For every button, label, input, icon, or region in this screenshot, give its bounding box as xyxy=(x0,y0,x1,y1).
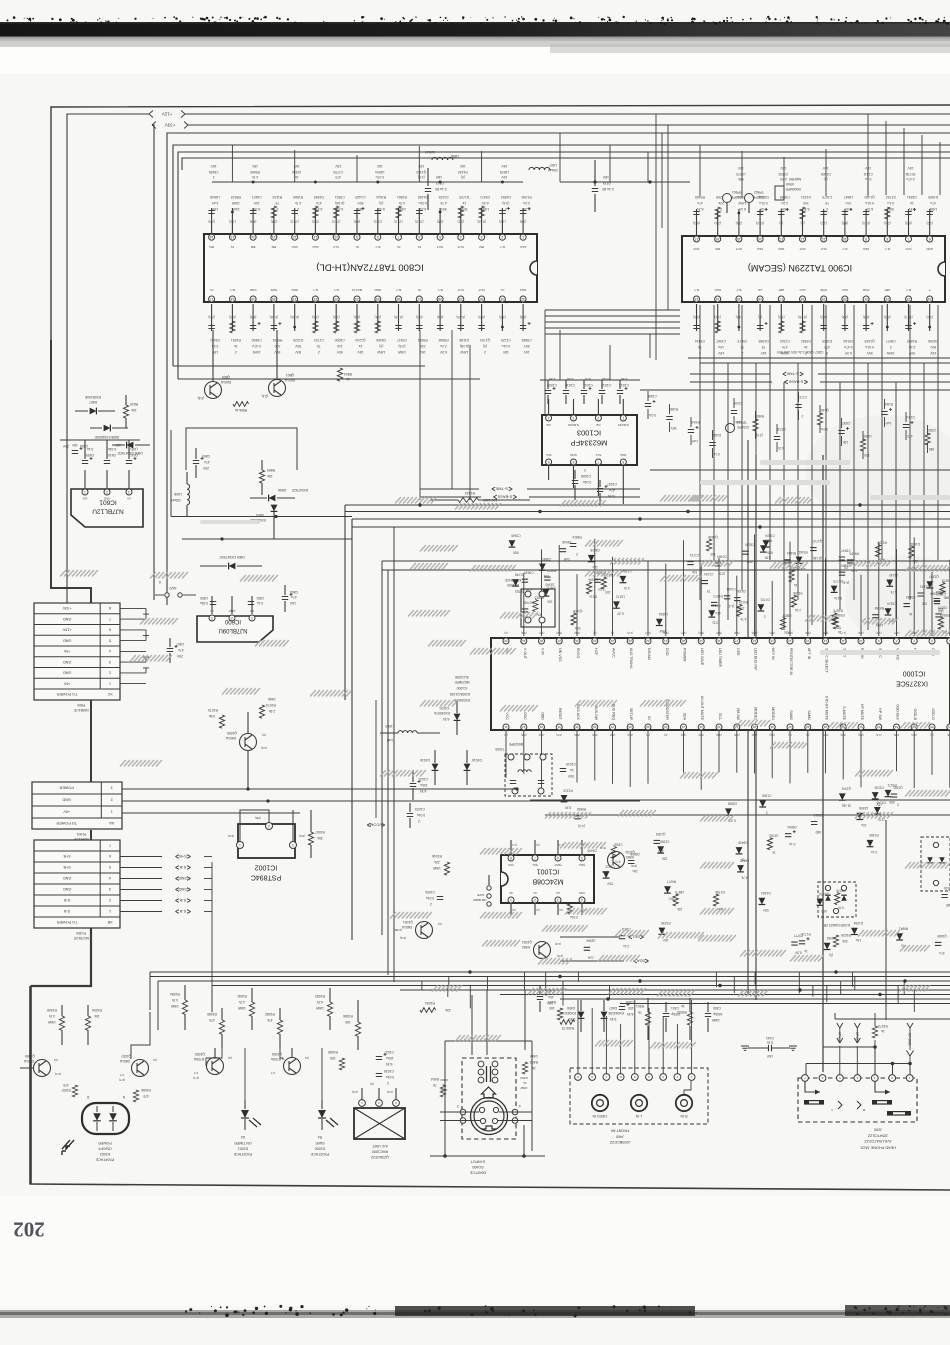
svg-text:(0): (0) xyxy=(370,1082,374,1086)
svg-text:8: 8 xyxy=(622,460,624,464)
svg-text:47u: 47u xyxy=(939,951,945,955)
svg-text:10u: 10u xyxy=(632,869,638,873)
svg-text:(15.0): (15.0) xyxy=(415,219,423,223)
svg-text:1/6W: 1/6W xyxy=(480,207,489,211)
bottom scanner band xyxy=(0,1310,950,1318)
svg-text:2: 2 xyxy=(897,802,899,806)
svg-text:C9777: C9777 xyxy=(794,933,804,937)
svg-text:(2.4): (2.4) xyxy=(271,219,278,223)
transistor Q1004 K583 xyxy=(522,940,563,959)
svg-text:(6.3): (6.3) xyxy=(693,221,700,225)
svg-text:(2.4): (2.4) xyxy=(208,219,215,223)
svg-text:D1404: D1404 xyxy=(761,891,771,895)
svg-text:23: 23 xyxy=(907,297,911,301)
svg-text:680: 680 xyxy=(821,909,827,913)
svg-text:GND: GND xyxy=(63,876,72,880)
svg-text:(4.4): (4.4) xyxy=(736,315,743,319)
svg-text:(1.2): (1.2) xyxy=(458,219,465,223)
svg-text:1k: 1k xyxy=(234,344,238,348)
svg-text:10u: 10u xyxy=(861,823,867,827)
svg-text:D1723: D1723 xyxy=(459,195,469,199)
component cluster below IC1000 xyxy=(506,730,950,960)
svg-text:L806: L806 xyxy=(451,154,459,158)
IC601 top capacitors xyxy=(82,440,138,464)
svg-text:10: 10 xyxy=(334,235,338,239)
svg-text:16V: 16V xyxy=(501,175,508,179)
svg-text:1/6W: 1/6W xyxy=(315,1006,324,1010)
SCL SDA brackets xyxy=(560,935,649,964)
svg-text:16V: 16V xyxy=(737,166,744,170)
svg-text:1uH: 1uH xyxy=(386,738,393,742)
svg-text:X OUT: X OUT xyxy=(523,648,527,660)
svg-text:MAX-IN: MAX-IN xyxy=(352,288,363,292)
svg-text:(3.4): (3.4) xyxy=(262,394,269,398)
svg-text:14: 14 xyxy=(788,639,792,643)
svg-text:J200: J200 xyxy=(874,1128,882,1132)
svg-text:D1599: D1599 xyxy=(928,195,938,199)
svg-text:100uH: 100uH xyxy=(424,150,435,154)
resistor R400 75 xyxy=(560,1020,574,1030)
svg-text:75: 75 xyxy=(707,589,711,593)
svg-text:R1786: R1786 xyxy=(715,890,725,894)
test point TP903 0102PE xyxy=(726,420,749,433)
connector AA TO POWER xyxy=(32,782,122,841)
svg-text:NJ7BL12U: NJ7BL12U xyxy=(92,508,124,515)
svg-text:R-Y: R-Y xyxy=(885,247,890,251)
svg-text:R9669: R9669 xyxy=(250,170,260,174)
svg-text:R1054: R1054 xyxy=(425,1001,435,1005)
svg-text:B-Y: B-Y xyxy=(375,245,380,249)
svg-text:470: 470 xyxy=(335,175,341,179)
svg-text:1uH: 1uH xyxy=(691,439,698,443)
svg-text:RVCO: RVCO xyxy=(576,648,580,659)
svg-text:L-IN: L-IN xyxy=(635,1114,642,1118)
connector S-INPUT SO400 D642TCE xyxy=(430,1041,545,1175)
svg-text:Q1541: Q1541 xyxy=(841,787,851,791)
svg-text:202: 202 xyxy=(13,1218,45,1242)
svg-text:16V: 16V xyxy=(211,207,218,211)
svg-text:Q1009: Q1009 xyxy=(195,1052,205,1056)
svg-text:(6.3): (6.3) xyxy=(863,315,870,319)
svg-text:D1969: D1969 xyxy=(314,195,324,199)
svg-text:R1115: R1115 xyxy=(739,600,748,604)
svg-text:Q1689: Q1689 xyxy=(937,934,947,938)
svg-text:9: 9 xyxy=(356,235,358,239)
capacitor cluster below IC900 xyxy=(693,304,938,355)
svg-text:1k: 1k xyxy=(532,1066,536,1070)
svg-text:R1075: R1075 xyxy=(208,708,218,712)
svg-text:75: 75 xyxy=(317,344,321,348)
svg-text:31: 31 xyxy=(504,725,508,729)
wire IC800-IC900 link lines xyxy=(545,310,680,334)
transistor Q1011 K583 xyxy=(600,846,637,874)
svg-text:L8848: L8848 xyxy=(210,195,220,199)
svg-text:L8172: L8172 xyxy=(616,595,625,599)
regulator IC600 NJ7BL09U box xyxy=(197,616,273,642)
svg-text:L8218: L8218 xyxy=(944,886,950,890)
svg-text:29: 29 xyxy=(459,297,463,301)
svg-text:+9V: +9V xyxy=(63,649,70,653)
resistor R1008 4.7k xyxy=(47,1005,65,1045)
svg-text:(0): (0) xyxy=(379,201,383,205)
svg-text:4: 4 xyxy=(109,876,111,880)
svg-text:A0: A0 xyxy=(509,891,513,895)
svg-text:100: 100 xyxy=(864,453,870,457)
svg-text:OUT: OUT xyxy=(799,247,806,251)
svg-text:17: 17 xyxy=(779,297,783,301)
svg-text:R1565: R1565 xyxy=(293,195,303,199)
svg-text:(2.4): (2.4) xyxy=(375,315,382,319)
svg-text:0.1u 80: 0.1u 80 xyxy=(602,187,613,191)
svg-text:Q1007: Q1007 xyxy=(121,1054,131,1058)
svg-text:(0): (0) xyxy=(801,221,805,225)
svg-text:4.7k: 4.7k xyxy=(172,998,179,1002)
svg-text:R1009: R1009 xyxy=(92,1008,102,1012)
svg-text:(6.3): (6.3) xyxy=(478,315,485,319)
svg-text:R1949: R1949 xyxy=(690,420,700,424)
svg-text:IC900 TA1229N (SECAM): IC900 TA1229N (SECAM) xyxy=(748,263,852,273)
svg-text:Q1937: Q1937 xyxy=(929,574,939,578)
svg-text:470: 470 xyxy=(63,1083,69,1087)
svg-text:OUT: OUT xyxy=(736,247,743,251)
svg-text:HP MUTE: HP MUTE xyxy=(860,704,864,721)
svg-text:22: 22 xyxy=(313,297,317,301)
oscillator sub-circuit above IC1000 pins xyxy=(504,578,555,627)
svg-text:0102PE: 0102PE xyxy=(736,425,749,429)
svg-text:C1008: C1008 xyxy=(581,474,591,478)
svg-text:(0): (0) xyxy=(504,631,507,635)
capacitor C801 0.1u xyxy=(248,596,264,605)
svg-text:R301: R301 xyxy=(636,1004,644,1008)
svg-text:IC1000: IC1000 xyxy=(457,686,468,690)
svg-text:R1080: R1080 xyxy=(207,1012,217,1016)
svg-text:50V: 50V xyxy=(746,560,753,564)
svg-text:(2.0): (2.0) xyxy=(602,870,608,874)
svg-text:R1861: R1861 xyxy=(397,195,407,199)
svg-text:ON/OFF: ON/OFF xyxy=(97,1146,111,1150)
svg-text:23: 23 xyxy=(334,297,338,301)
svg-text:75: 75 xyxy=(825,201,829,205)
svg-text:100: 100 xyxy=(330,1056,336,1060)
resistor R810 10k xyxy=(123,395,138,428)
svg-text:(1.2): (1.2) xyxy=(926,221,933,225)
XC row stub wires xyxy=(120,608,149,683)
svg-text:7: 7 xyxy=(907,237,909,241)
svg-text:GND: GND xyxy=(374,288,382,292)
svg-text:(4.9): (4.9) xyxy=(352,1090,358,1094)
svg-text:30: 30 xyxy=(480,297,484,301)
svg-text:C1019: C1019 xyxy=(566,762,576,766)
svg-text:1: 1 xyxy=(522,235,524,239)
svg-text:ID: ID xyxy=(647,716,651,720)
svg-text:Q801: Q801 xyxy=(286,373,294,377)
svg-text:Q1747: Q1747 xyxy=(812,539,822,543)
resistor R1082 47k xyxy=(265,1008,283,1048)
svg-text:GND: GND xyxy=(249,288,257,292)
svg-text:SCL: SCL xyxy=(545,453,551,457)
svg-text:2.2u: 2.2u xyxy=(795,608,801,612)
svg-text:(4.4): (4.4) xyxy=(578,824,585,828)
svg-text:1k: 1k xyxy=(681,1004,685,1008)
svg-text:OSD-B: OSD-B xyxy=(913,709,917,721)
svg-text:0.1u: 0.1u xyxy=(865,177,872,181)
svg-text:18V: 18V xyxy=(210,164,217,168)
soft gray streaks right xyxy=(200,460,950,655)
svg-text:PL: PL xyxy=(230,245,234,249)
IC1003 top pins xyxy=(546,399,629,427)
transistor Q801 D601A xyxy=(262,330,295,398)
svg-text:14: 14 xyxy=(716,297,720,301)
svg-text:R9161: R9161 xyxy=(798,550,808,554)
wire long vertical x823 xyxy=(822,455,824,1072)
svg-text:2: 2 xyxy=(387,1081,389,1085)
svg-text:0.1u: 0.1u xyxy=(871,850,877,854)
svg-text:0.33u: 0.33u xyxy=(108,447,116,451)
svg-text:(0): (0) xyxy=(664,733,667,737)
svg-text:C8828: C8828 xyxy=(590,548,600,552)
svg-text:M24C08B: M24C08B xyxy=(532,878,563,885)
svg-text:(3.5): (3.5) xyxy=(713,621,720,625)
svg-text:2: 2 xyxy=(213,175,215,179)
resistor R1007 470 xyxy=(61,1083,78,1097)
svg-text:Q1700: Q1700 xyxy=(480,338,490,342)
svg-text:0.1u: 0.1u xyxy=(887,201,894,205)
resistor R1046 22k xyxy=(432,854,450,875)
svg-text:50V: 50V xyxy=(461,207,468,211)
svg-text:470: 470 xyxy=(143,1094,149,1098)
resistor R1066 470 xyxy=(133,1088,150,1102)
svg-text:C809: C809 xyxy=(202,454,210,458)
svg-text:D1605: D1605 xyxy=(821,172,831,176)
svg-text:(6.3): (6.3) xyxy=(842,221,849,225)
svg-text:28: 28 xyxy=(540,639,544,643)
svg-text:B-Y: B-Y xyxy=(842,247,847,251)
transistor Q1009 B709A xyxy=(193,1048,232,1080)
svg-text:C9845: C9845 xyxy=(521,338,531,342)
svg-text:(15.0): (15.0) xyxy=(756,221,764,225)
svg-text:4.7k: 4.7k xyxy=(741,875,747,879)
svg-text:1/6W: 1/6W xyxy=(529,1054,538,1058)
svg-text:L8783: L8783 xyxy=(769,834,778,838)
capacitor C808 47u 16V xyxy=(282,585,298,612)
svg-text:2: 2 xyxy=(297,207,299,211)
svg-text:A/C UNIT: A/C UNIT xyxy=(372,1144,388,1148)
svg-text:2: 2 xyxy=(109,898,111,902)
svg-text:(8.1B): (8.1B) xyxy=(335,201,344,205)
svg-text:BM: BM xyxy=(715,247,720,251)
svg-text:GND: GND xyxy=(62,798,71,802)
diode network right dashed box xyxy=(921,837,950,891)
svg-text:C9159: C9159 xyxy=(733,401,743,405)
svg-text:+12V: +12V xyxy=(162,111,173,116)
wire mid bus group xyxy=(345,505,950,527)
svg-text:(3.5): (3.5) xyxy=(437,219,444,223)
svg-text:C1154: C1154 xyxy=(704,572,713,576)
svg-text:(15.0): (15.0) xyxy=(862,221,870,225)
svg-text:D1809: D1809 xyxy=(822,339,832,343)
svg-text:2: 2 xyxy=(764,614,766,618)
svg-text:C8435: C8435 xyxy=(587,848,597,852)
svg-text:27: 27 xyxy=(557,639,561,643)
svg-text:BUS-SW: BUS-SW xyxy=(594,706,598,721)
svg-text:AV-OUT MUTE: AV-OUT MUTE xyxy=(700,696,704,721)
svg-text:0.1u: 0.1u xyxy=(257,601,263,605)
svg-text:PL: PL xyxy=(417,245,421,249)
svg-text:L8398: L8398 xyxy=(859,806,868,810)
svg-text:(0.8): (0.8) xyxy=(556,733,562,737)
svg-text:(15.0): (15.0) xyxy=(332,219,340,223)
svg-text:R1339: R1339 xyxy=(521,195,531,199)
svg-text:0102PE: 0102PE xyxy=(730,195,743,199)
svg-text:52: 52 xyxy=(877,725,881,729)
svg-text:(15.0): (15.0) xyxy=(394,219,402,223)
svg-text:(0.7): (0.7) xyxy=(55,1072,61,1076)
svg-text:16: 16 xyxy=(753,639,757,643)
svg-text:R9465: R9465 xyxy=(695,195,705,199)
svg-text:(4.4): (4.4) xyxy=(250,219,257,223)
svg-text:50V: 50V xyxy=(294,350,301,354)
svg-text:C8187: C8187 xyxy=(613,842,623,846)
capacitor cluster above IC900 xyxy=(693,195,938,236)
svg-text:C8261: C8261 xyxy=(907,195,917,199)
svg-text:GND: GND xyxy=(63,660,72,664)
svg-text:D601A: D601A xyxy=(225,736,236,740)
svg-text:24: 24 xyxy=(611,639,615,643)
svg-text:1k: 1k xyxy=(838,630,842,634)
svg-text:6.3V: 6.3V xyxy=(252,207,260,211)
wire thick bus AA to XB xyxy=(90,830,92,840)
svg-text:0102PE: 0102PE xyxy=(752,195,765,199)
svg-text:4: 4 xyxy=(460,235,462,239)
svg-text:GND: GND xyxy=(63,671,72,675)
svg-text:680: 680 xyxy=(929,447,935,451)
svg-text:28V: 28V xyxy=(62,444,69,448)
svg-text:31: 31 xyxy=(500,297,504,301)
svg-text:ON TIMER: ON TIMER xyxy=(234,1141,252,1145)
svg-text:R403: R403 xyxy=(520,1076,528,1080)
diode D807 EX08100E xyxy=(75,395,115,415)
svg-text:17: 17 xyxy=(695,237,699,241)
svg-text:1/6W: 1/6W xyxy=(520,1086,527,1090)
svg-text:POWER: POWER xyxy=(98,1141,112,1145)
svg-text:R9277: R9277 xyxy=(667,880,677,884)
resistor R1029 22k xyxy=(833,933,850,947)
svg-text:1: 1 xyxy=(109,909,111,913)
svg-text:(1.2): (1.2) xyxy=(229,219,236,223)
svg-text:(2.7): (2.7) xyxy=(119,1078,125,1082)
svg-text:L8694: L8694 xyxy=(375,170,384,174)
svg-text:AGC: AGC xyxy=(311,245,318,249)
svg-text:IC1001: IC1001 xyxy=(537,868,560,875)
svg-text:+33V: +33V xyxy=(62,606,71,610)
svg-text:47u: 47u xyxy=(845,201,851,205)
svg-text:C1140: C1140 xyxy=(889,573,898,577)
svg-text:2.2u: 2.2u xyxy=(784,630,790,634)
label SLD1008 M023BPE xyxy=(450,675,471,702)
svg-text:NICAM: NICAM xyxy=(647,648,651,660)
svg-text:2: 2 xyxy=(276,207,278,211)
svg-text:6: 6 xyxy=(109,854,111,858)
capacitor C400 10u 16V xyxy=(537,985,554,1012)
svg-text:26: 26 xyxy=(397,297,401,301)
svg-text:6.3V: 6.3V xyxy=(738,207,746,211)
svg-text:C9340: C9340 xyxy=(511,534,521,538)
svg-text:18V: 18V xyxy=(251,164,258,168)
svg-text:D1016: D1016 xyxy=(472,758,482,762)
svg-text:R1083: R1083 xyxy=(315,994,325,998)
svg-text:XC: XC xyxy=(107,692,113,696)
svg-text:50V: 50V xyxy=(523,344,530,348)
svg-text:OUT: OUT xyxy=(820,247,827,251)
svg-text:(2.4): (2.4) xyxy=(842,315,849,319)
svg-text:6.3V: 6.3V xyxy=(522,207,530,211)
svg-text:2.2u: 2.2u xyxy=(623,944,629,948)
svg-text:S-B: S-B xyxy=(63,898,70,902)
svg-text:1/6W: 1/6W xyxy=(237,1006,246,1010)
svg-text:2: 2 xyxy=(584,468,586,472)
svg-text:C1302: C1302 xyxy=(780,339,790,343)
wire bus under IC1000 xyxy=(530,800,950,815)
svg-text:Q800: Q800 xyxy=(222,375,230,379)
svg-text:L8824: L8824 xyxy=(659,612,668,616)
svg-text:40: 40 xyxy=(664,725,668,729)
capacitor C300 1000p xyxy=(705,1002,723,1032)
svg-text:39: 39 xyxy=(646,725,650,729)
svg-text:6.3V: 6.3V xyxy=(779,177,787,181)
svg-text:IX3275CE: IX3275CE xyxy=(896,680,928,687)
svg-text:ND781CE: ND781CE xyxy=(73,936,89,940)
svg-text:(5.3): (5.3) xyxy=(400,936,406,940)
svg-text:12: 12 xyxy=(824,639,828,643)
svg-text:Q1303: Q1303 xyxy=(416,170,426,174)
svg-text:C1028: C1028 xyxy=(384,1069,394,1073)
svg-text:100: 100 xyxy=(345,1020,351,1024)
svg-text:R9835: R9835 xyxy=(577,807,587,811)
svg-text:(0): (0) xyxy=(779,221,783,225)
svg-text:18V: 18V xyxy=(418,164,425,168)
svg-text:(1.8): (1.8) xyxy=(555,942,561,946)
svg-text:47u: 47u xyxy=(609,488,615,492)
capacitor C1000 0.01u xyxy=(425,890,443,906)
svg-text:0.01u: 0.01u xyxy=(865,201,874,205)
wire lower bus group xyxy=(150,972,950,1004)
svg-text:C1888: C1888 xyxy=(647,394,657,398)
svg-text:C807: C807 xyxy=(176,642,184,646)
svg-text:P1300: P1300 xyxy=(76,931,86,935)
svg-text:2: 2 xyxy=(890,345,892,349)
svg-text:Q1006: Q1006 xyxy=(25,1054,35,1058)
svg-text:0.47u: 0.47u xyxy=(834,596,842,600)
svg-text:C8406: C8406 xyxy=(376,338,386,342)
svg-text:C815: C815 xyxy=(603,181,611,185)
diode cluster right above IC1000 xyxy=(707,533,950,634)
svg-text:8: 8 xyxy=(109,606,111,610)
svg-text:MAHR4: MAHR4 xyxy=(789,177,801,181)
svg-text:75: 75 xyxy=(638,1010,642,1014)
svg-text:L8875: L8875 xyxy=(675,890,684,894)
svg-text:10k: 10k xyxy=(94,1014,100,1018)
svg-text:6: 6 xyxy=(572,460,574,464)
svg-text:6.3V: 6.3V xyxy=(865,207,873,211)
svg-text:C9461: C9461 xyxy=(210,338,220,342)
svg-text:D407: D407 xyxy=(609,1006,617,1010)
svg-text:8: 8 xyxy=(377,235,379,239)
svg-text:D1188: D1188 xyxy=(459,338,469,342)
svg-text:SLD1008: SLD1008 xyxy=(455,675,469,679)
svg-text:JVKJJ0A7CEZZ: JVKJJ0A7CEZZ xyxy=(864,1139,892,1143)
svg-text:+5V: +5V xyxy=(63,681,70,685)
svg-text:MODE1: MODE1 xyxy=(771,707,775,720)
